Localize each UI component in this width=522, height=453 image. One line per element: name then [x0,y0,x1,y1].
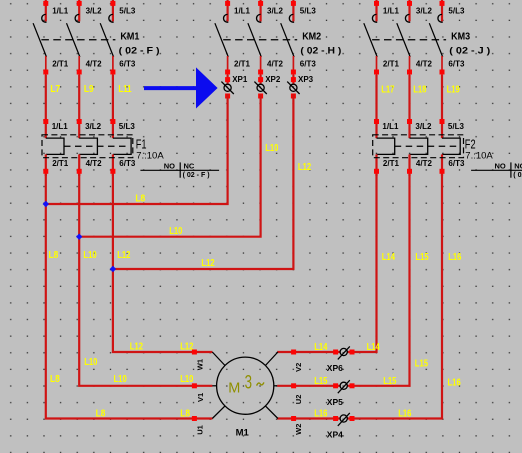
contactor KM2 mechanical link (dashed) [223,39,297,41]
wire KM2 pole 2 bottom terminal 4/T2 [258,56,283,75]
svg-text:L10: L10 [84,357,98,368]
net label L10 [114,374,128,385]
net label L10 [180,374,194,385]
contactor KM2 pole 3 moving blade [281,23,294,57]
svg-text:1/L1: 1/L1 [234,6,251,15]
thermal element F1 pole 1 [46,138,64,154]
overload relay F2 mechanical link (dashed) [395,145,459,147]
svg-text:L19: L19 [447,85,461,96]
svg-text:NC: NC [514,161,522,170]
motor M1 circle [217,357,274,439]
thermal element F2 pole 3 [442,138,460,154]
svg-text:( 02 - F ): ( 02 - F ) [183,170,210,179]
net label L12 [180,342,194,353]
wire left column from F1 pole 2 down to motor row [79,174,212,388]
svg-text:1/L1: 1/L1 [52,6,69,15]
svg-text:M1: M1 [236,428,250,439]
contactor KM1 pole 2 fixed contact arc (3/L2) [75,6,102,22]
wire from XP3 down and left to junction [113,94,296,270]
svg-text:6/T3: 6/T3 [448,59,465,68]
svg-text:1/L1: 1/L1 [52,122,69,131]
contactor KM1 pole 3 fixed contact arc (5/L3) [109,6,136,22]
wire motor row to terminal XP6 and up to F2 pole 1 [277,174,376,355]
wire from XP2 down and left to junction [79,94,263,237]
svg-text:4/T2: 4/T2 [416,59,433,68]
svg-text:L15: L15 [383,376,397,387]
svg-text:5/L3: 5/L3 [300,6,317,15]
contactor KM1 pole 1 moving blade [33,23,46,57]
wire F1 pole 1 output 2/T1 [43,154,68,176]
net label L14 [382,252,396,263]
svg-text:( 02 - H ): ( 02 - H ) [300,46,341,56]
svg-text:L17: L17 [381,85,395,96]
wire KM2 pole 3 bottom terminal 6/T3 [291,56,316,75]
contactor KM1 pole 2 moving blade [67,23,80,57]
svg-text:W1: W1 [195,359,204,370]
wire KM2 pole 1 top feed [225,0,230,21]
F1 auxiliary contact table NO/NC [140,161,219,179]
svg-text:2/T1: 2/T1 [383,159,400,168]
net label L10 (XP2 drop) [265,143,279,154]
svg-text:L14: L14 [382,252,396,263]
wire F2 pole 1 output 2/T1 [374,154,399,176]
wire motor row to terminal XP5 and up to F2 pole 2 [277,174,409,388]
net label L17 [381,85,395,96]
thermal element F1 pole 2 [79,138,97,154]
svg-text:L14: L14 [367,342,381,353]
motor stub W2 (lower-right) [265,406,303,435]
wire KM1 pole 1 bottom terminal 2/T1 [43,56,68,75]
svg-text:6/T3: 6/T3 [448,159,465,168]
wire KM2 pole 1 bottom terminal 2/T1 [225,56,250,75]
net label L8 [49,250,59,261]
overload relay F2 designator and rating [465,137,494,161]
net label L16 [314,409,328,420]
svg-text:3/L2: 3/L2 [267,6,284,15]
svg-text:2/T1: 2/T1 [383,59,400,68]
net label L14 [367,342,381,353]
svg-text:L10: L10 [114,374,128,385]
contactor KM1 pole 3 moving blade [100,23,113,57]
svg-text:XP6: XP6 [327,363,343,373]
svg-text:XP2: XP2 [265,75,281,84]
wire motor row to terminal XP4 and up to F2 pole 3 [277,174,442,421]
svg-text:5/L3: 5/L3 [448,6,465,15]
terminal pin XP1 [221,75,247,94]
contactor KM3 mechanical link (dashed) [372,39,446,41]
wire F2 pole 3 input [440,75,465,138]
svg-text:NO: NO [164,161,175,170]
wire left column from F1 pole 3 down to motor row [113,174,212,355]
net label L10 (branch) [169,226,183,237]
junction node L8 [43,201,49,207]
wire KM1 pole 3 top feed [110,0,115,21]
contactor KM3 pole 2 moving blade [397,23,410,57]
svg-text:L8: L8 [180,408,190,419]
net label L9 [84,84,94,95]
contactor KM3 pole 3 moving blade [429,23,442,57]
svg-text:4/T2: 4/T2 [86,159,103,168]
wire F1 pole 3 output 6/T3 [110,154,135,176]
svg-text:3/L2: 3/L2 [415,122,432,131]
svg-text:L8: L8 [49,250,59,261]
motor stub V1 (left) [196,386,217,402]
wire F2 pole 2 output 4/T2 [407,154,432,176]
svg-text:L18: L18 [413,85,427,96]
net label L8 (branch) [135,193,145,204]
net label L12 (branch) [201,258,215,269]
thermal element F2 pole 2 [410,138,428,154]
svg-text:L9: L9 [84,84,94,95]
svg-text:3: 3 [245,372,252,393]
svg-text:L7: L7 [50,84,60,95]
svg-text:7.:10A: 7.:10A [136,151,164,162]
net label L12 (XP3 drop) [298,162,312,173]
svg-text:L12: L12 [180,342,194,353]
wire KM3 pole 1 top feed [374,0,379,21]
contactor KM1 reference designator [119,30,160,55]
svg-text:( 02 - J ): ( 02 - J ) [449,46,490,56]
svg-text:1/L1: 1/L1 [383,6,400,15]
contactor KM2 pole 1 fixed contact arc (1/L1) [224,6,251,22]
svg-text:L15: L15 [314,376,328,387]
wire F2 pole 3 output 6/T3 [440,154,465,176]
svg-text:KM2: KM2 [302,30,321,42]
wire F1 pole 1 input [43,75,68,138]
contactor KM3 reference designator [449,30,490,55]
svg-text:5/L3: 5/L3 [119,6,136,15]
wire KM3 pole 1 bottom terminal 2/T1 [374,56,399,75]
net label L7 [50,84,60,95]
thermal element F2 pole 1 [377,138,395,154]
net label L15 [383,376,397,387]
svg-text:2/T1: 2/T1 [234,59,251,68]
overload relay F1 enclosure (dashed box) [42,135,133,158]
svg-text:1/L1: 1/L1 [382,122,399,131]
svg-text:2/T1: 2/T1 [52,159,69,168]
svg-text:3/L2: 3/L2 [85,122,102,131]
svg-text:L10: L10 [169,226,183,237]
net label L12 [130,342,144,353]
svg-text:W2: W2 [294,424,303,435]
svg-text:2/T1: 2/T1 [52,59,69,68]
svg-text:5/L3: 5/L3 [119,122,136,131]
net label L16 (lower) [448,377,462,388]
contactor KM3 pole 3 fixed contact arc (5/L3) [438,6,465,22]
wire KM3 pole 2 bottom terminal 4/T2 [407,56,432,75]
terminal pin XP6 [327,346,350,373]
svg-text:XP3: XP3 [298,75,314,84]
net label L15 [415,252,429,263]
svg-text:3/L2: 3/L2 [416,6,433,15]
svg-text:7.:10A: 7.:10A [465,151,493,162]
svg-text:KM1: KM1 [120,30,139,42]
net label L8 (lower) [50,374,60,385]
svg-text:XP5: XP5 [327,397,343,407]
contactor KM2 pole 2 fixed contact arc (3/L2) [257,6,284,22]
wire F1 pole 3 input [110,75,135,138]
terminal pin XP4 [327,413,350,440]
net label L15 [314,376,328,387]
junction node L10 [76,234,82,240]
svg-text:U2: U2 [294,395,303,405]
svg-text:L15: L15 [415,252,429,263]
svg-text:NO: NO [494,161,505,170]
net label L19 [447,85,461,96]
svg-text:V1: V1 [196,393,205,402]
contactor KM2 reference designator [300,30,341,55]
contactor KM3 pole 1 moving blade [364,23,377,57]
F2 auxiliary contact table NO/NC [471,161,522,179]
thermal element F1 pole 3 [113,138,131,154]
motor stub U1 (lower-left) [195,406,225,435]
contactor KM3 pole 2 fixed contact arc (3/L2) [405,6,432,22]
svg-text:L14: L14 [314,342,328,353]
contactor KM1 pole 1 fixed contact arc (1/L1) [42,6,69,22]
contactor KM1 mechanical link (dashed) [41,39,115,41]
svg-text:L12: L12 [201,258,215,269]
wire KM1 pole 2 bottom terminal 4/T2 [77,56,102,75]
overload relay F1 mechanical link (dashed) [64,145,129,147]
svg-text:4/T2: 4/T2 [267,59,284,68]
svg-text:L15: L15 [415,358,429,369]
net label L16 [448,252,462,263]
wire F2 pole 2 input [407,75,432,138]
terminal pin XP5 [327,380,350,407]
net label L18 [413,85,427,96]
svg-text:4/T2: 4/T2 [416,159,433,168]
wire KM3 pole 3 bottom terminal 6/T3 [440,56,465,75]
svg-text:L16: L16 [398,409,412,420]
svg-text:L12: L12 [130,342,144,353]
net label L12 [117,250,131,261]
wire F1 pole 2 output 4/T2 [77,154,102,176]
motor stub W1 (upper-left) [195,352,225,370]
net label L8 [96,408,106,419]
overload relay F2 enclosure (dashed box) [373,135,464,158]
net label L11 [118,84,132,95]
wire KM3 pole 2 top feed [407,0,412,21]
svg-text:6/T3: 6/T3 [300,59,317,68]
svg-text:M: M [228,380,240,396]
terminal pin XP3 [287,75,313,94]
wire KM1 pole 3 bottom terminal 6/T3 [110,56,135,75]
net label L10 (lower) [84,357,98,368]
net label L10 [83,250,97,261]
net label L14 [314,342,328,353]
blue pointer arrow at XP1 [144,67,218,108]
svg-text:U1: U1 [195,425,204,435]
svg-text:L16: L16 [448,252,462,263]
svg-text:3/L2: 3/L2 [86,6,103,15]
wire KM3 pole 3 top feed [440,0,445,21]
overload relay F1 designator and rating [136,137,165,161]
net label L16 [398,409,412,420]
wire KM1 pole 2 top feed [77,0,82,21]
svg-text:( 02 - F ): ( 02 - F ) [119,46,160,56]
svg-text:L11: L11 [118,84,132,95]
svg-text:L16: L16 [314,409,328,420]
svg-text:XP1: XP1 [232,75,248,84]
wire KM2 pole 2 top feed [258,0,263,21]
svg-text:V2: V2 [294,363,303,372]
svg-text:L8: L8 [50,374,60,385]
junction node L12 [110,266,116,272]
svg-text:XP4: XP4 [327,430,343,440]
svg-text:L10: L10 [265,143,279,154]
svg-text:4/T2: 4/T2 [86,59,103,68]
wire from XP1 down and left to junction [46,94,230,205]
wire left column from F1 pole 1 down to motor row [46,174,213,421]
svg-text:L12: L12 [117,250,131,261]
svg-text:( 02 - J ): ( 02 - J ) [513,170,522,179]
contactor KM2 pole 3 fixed contact arc (5/L3) [289,6,316,22]
terminal pin XP2 [254,75,280,94]
contactor KM2 pole 2 moving blade [248,23,261,57]
net label L8 [180,408,190,419]
contactor KM2 pole 1 moving blade [215,23,228,57]
svg-text:L8: L8 [96,408,106,419]
motor stub U2 (right) [274,386,303,404]
svg-text:KM3: KM3 [451,30,470,42]
svg-text:L16: L16 [448,377,462,388]
svg-text:L10: L10 [180,374,194,385]
contactor KM3 pole 1 fixed contact arc (1/L1) [372,6,399,22]
wire KM1 pole 1 top feed [43,0,48,21]
motor stub V2 (upper-right) [265,352,303,372]
svg-text:L8: L8 [135,193,145,204]
svg-text:F2: F2 [465,137,476,151]
svg-text:6/T3: 6/T3 [119,159,136,168]
svg-text:L10: L10 [83,250,97,261]
wire KM2 pole 3 top feed [291,0,296,21]
svg-text:L12: L12 [298,162,312,173]
net label L15 (lower) [415,358,429,369]
svg-text:5/L3: 5/L3 [448,122,465,131]
svg-text:NC: NC [184,161,195,170]
svg-text:F1: F1 [136,137,147,151]
svg-text:6/T3: 6/T3 [119,59,136,68]
wire F1 pole 2 input [77,75,102,138]
wire F2 pole 1 input [374,75,399,138]
